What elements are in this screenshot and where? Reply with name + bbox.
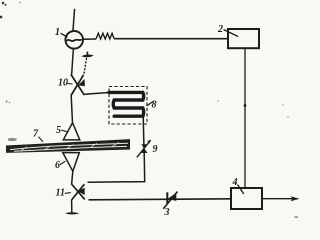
block 4 (evaporator box)	[231, 188, 262, 209]
label 7	[33, 129, 43, 142]
label 2	[217, 24, 238, 37]
label 10	[58, 78, 73, 89]
wire: valve 11 down to drain	[71, 200, 73, 213]
label 8	[147, 100, 157, 111]
wire: block 2 down to block 4	[244, 48, 246, 188]
svg-text:4: 4	[232, 177, 238, 188]
compressor/pump 1 (circle with wavy line)	[65, 31, 83, 49]
svg-text:2: 2	[217, 24, 223, 35]
wire: nozzle 6 down to valve 11	[72, 171, 73, 184]
label 11	[56, 188, 71, 199]
svg-text:3: 3	[164, 207, 170, 218]
adjustable throttle 9 (small valve with slash arrow)	[137, 140, 151, 158]
actuator stem (dashed)	[84, 58, 87, 75]
svg-text:1: 1	[55, 27, 60, 38]
nozzle 6 (triangle below partition)	[63, 153, 80, 172]
wire: throttle 9 down, corner, left to valve 11	[88, 158, 145, 182]
wire: outlet with arrow	[262, 196, 300, 201]
valve 10 (three-way X valve)	[71, 74, 85, 95]
heater 8 serpentine coil	[109, 92, 144, 116]
svg-text:6: 6	[55, 160, 60, 171]
svg-text:9: 9	[153, 144, 158, 155]
partition wall 7 (hatched tilted bar)	[6, 138, 130, 153]
check valve 3 with slash	[163, 192, 177, 209]
block 2 (condenser box)	[228, 29, 259, 48]
solenoid actuator head above valve 10	[81, 52, 94, 58]
label 1	[55, 27, 68, 38]
wire: valve 10 to heater 8	[84, 93, 109, 95]
capillary / throttle zigzag	[96, 33, 114, 39]
wire: circle to capillary	[83, 38, 96, 40]
wire: valve 10 down to nozzle 5	[71, 95, 72, 123]
svg-text:10: 10	[58, 78, 68, 89]
svg-text:11: 11	[56, 188, 65, 199]
valve 11 (three-way X valve)	[72, 184, 85, 200]
nozzle 5 (triangle above partition)	[63, 123, 80, 140]
wire: circle bottom down to valve 10	[72, 48, 74, 75]
label 5	[56, 125, 67, 136]
wire: heater 8 outlet downward	[142, 116, 145, 141]
wire: bottom line from valve 11 to block 4	[89, 199, 232, 200]
drain / ground bar	[65, 212, 80, 214]
wire: main vertical inlet line at top	[73, 9, 75, 32]
svg-text:8: 8	[152, 100, 157, 111]
svg-text:5: 5	[56, 125, 61, 136]
label 4	[232, 177, 244, 194]
heater 8 dashed enclosure	[109, 87, 147, 125]
label 6	[55, 160, 65, 171]
wire: capillary to block 2	[114, 38, 228, 40]
